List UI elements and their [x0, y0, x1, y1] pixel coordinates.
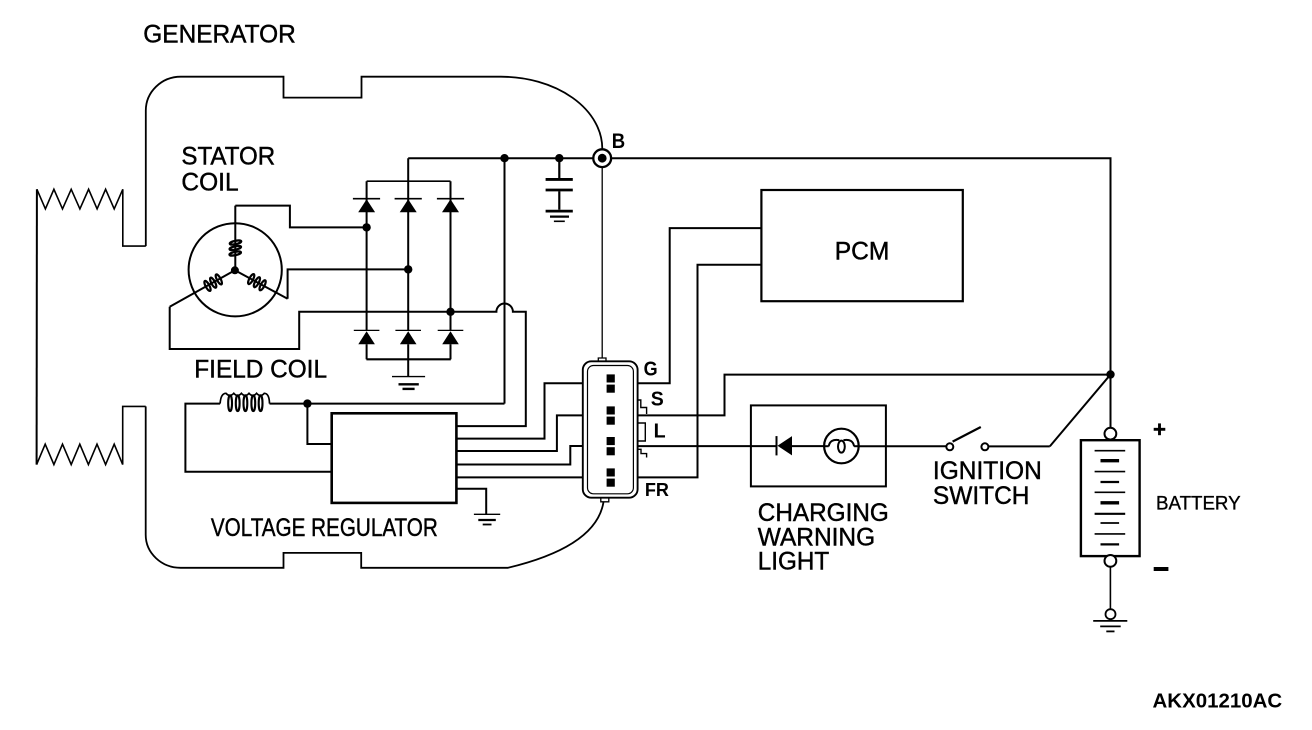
ignition switch contact right: [981, 443, 988, 450]
node phase1 rectifier: [362, 223, 370, 231]
svg-text:STATOR: STATOR: [181, 143, 275, 171]
generator boundary: [146, 77, 603, 246]
svg-text:PCM: PCM: [835, 237, 890, 265]
svg-text:FIELD COIL: FIELD COIL: [194, 355, 327, 383]
wire G right of connector: [638, 228, 762, 383]
svg-text:VOLTAGE REGULATOR: VOLTAGE REGULATOR: [211, 514, 438, 542]
bus wire B to battery corner: [611, 158, 1110, 374]
connector pin G: [607, 374, 615, 392]
node phase2 rectifier: [404, 265, 412, 273]
stator winding top: [229, 206, 241, 271]
wire lamp to switch: [859, 445, 947, 447]
rectifier bottom rail: [366, 358, 450, 360]
PCM box: [761, 190, 962, 301]
diode D4: [354, 330, 380, 359]
rectifier column 2: [407, 158, 409, 330]
pulley left side: [36, 189, 38, 464]
diode D3: [437, 199, 464, 213]
svg-text:COIL: COIL: [181, 168, 238, 196]
node battery junction: [1106, 370, 1114, 378]
charging warning light box: [751, 405, 886, 486]
svg-text:SWITCH: SWITCH: [933, 482, 1030, 510]
stator winding lower-left: [170, 270, 235, 307]
wire FR right of connector: [638, 265, 762, 478]
rectifier column 1: [366, 181, 368, 330]
ignition switch lever: [953, 427, 981, 442]
capacitor C1: [546, 158, 573, 210]
field coil loop wires: [185, 404, 331, 472]
pulley bottom zigzag: [37, 444, 123, 464]
battery positive terminal: [1105, 428, 1117, 440]
generator boundary bottom: [146, 406, 604, 567]
stator winding lower-right: [235, 270, 288, 299]
rectifier ground: [392, 359, 425, 389]
node field regulator: [303, 399, 311, 407]
svg-text:LIGHT: LIGHT: [758, 548, 829, 576]
rectifier top rail: [367, 180, 451, 182]
ignition switch contact left: [946, 443, 953, 450]
battery negative terminal: [1105, 555, 1117, 567]
capacitor ground: [546, 211, 573, 221]
stator coil circle: [189, 223, 282, 316]
connector S key bump: [639, 400, 647, 414]
wire field node to regulator: [307, 404, 331, 444]
node bus capacitor: [555, 154, 563, 162]
connector FR key bump: [639, 449, 647, 457]
connector L key bump: [639, 423, 646, 441]
connector body: [583, 358, 638, 502]
connector pin FR: [607, 468, 615, 486]
stator center node: [231, 266, 239, 274]
regulator output wires: [456, 383, 582, 438]
pulley top zigzag: [123, 189, 146, 246]
wire B to connector: [601, 167, 603, 358]
svg-text:FR: FR: [645, 480, 669, 500]
svg-text:L: L: [654, 420, 666, 442]
node phase3 rectifier: [446, 308, 454, 316]
wire junction to battery: [1110, 375, 1112, 428]
svg-text:G: G: [644, 359, 658, 381]
voltage regulator box: [332, 413, 457, 503]
connector pin L: [607, 437, 615, 455]
wire L inside CWL: [751, 445, 777, 447]
wire bus to field coil: [504, 158, 506, 403]
wire phase3 to regulator with hop: [451, 304, 526, 427]
battery minus sign: [1154, 567, 1169, 571]
battery plus sign: [1154, 423, 1166, 435]
diode D6: [438, 330, 464, 359]
node B ring: [593, 149, 611, 167]
battery box: [1081, 440, 1140, 556]
wire L right of connector: [638, 445, 751, 447]
svg-text:BATTERY: BATTERY: [1156, 493, 1241, 515]
switch blade diagonal: [1050, 375, 1111, 447]
wire S right of connector: [638, 375, 1111, 416]
diode D2: [395, 199, 422, 213]
diode D7: [777, 436, 825, 455]
svg-text:S: S: [651, 388, 664, 410]
wire switch to blade: [988, 445, 1049, 447]
svg-text:B: B: [612, 130, 625, 153]
diode D1: [353, 199, 380, 213]
bus wire B+: [408, 157, 593, 159]
field coil inductor: [220, 393, 269, 411]
battery ground terminal circle: [1106, 609, 1116, 619]
regulator ground: [456, 489, 500, 525]
svg-text:IGNITION: IGNITION: [933, 457, 1042, 485]
lamp: [824, 429, 859, 464]
connector pin S: [607, 406, 615, 424]
svg-text:AKX01210AC: AKX01210AC: [1153, 691, 1283, 713]
svg-text:GENERATOR: GENERATOR: [143, 21, 295, 49]
node bus field: [500, 154, 508, 162]
wire battery to ground: [1109, 567, 1111, 609]
wire phase 3: [170, 307, 451, 349]
wire phase 2: [288, 269, 409, 298]
wire phase 1: [235, 206, 366, 228]
rectifier column 3: [450, 181, 452, 330]
battery ground: [1093, 621, 1127, 632]
diode D5: [395, 330, 421, 359]
battery plates: [1095, 451, 1126, 545]
